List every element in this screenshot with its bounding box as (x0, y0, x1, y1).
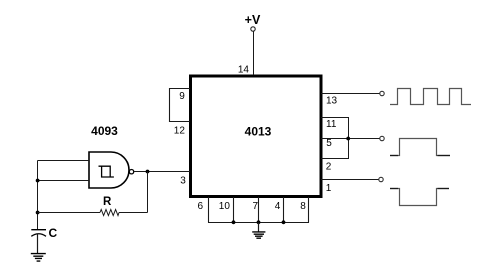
wire gate input bottom (38, 180, 90, 182)
svg-text:3: 3 (180, 175, 186, 186)
wire pin 5 (321, 138, 380, 140)
wire bottom bus (208, 222, 309, 224)
junction input node (36, 179, 40, 183)
svg-text:1: 1 (326, 183, 332, 194)
junction pin 4/bus (282, 220, 286, 224)
gate output bubble (129, 170, 133, 174)
svg-text:10: 10 (219, 201, 231, 212)
wire feedback horizontal right of R (119, 212, 148, 214)
wire bus to ground (258, 223, 260, 232)
svg-text:4093: 4093 (91, 124, 118, 138)
waveform Q1 dark tails (390, 155, 450, 157)
bracket pins 11-2 (321, 118, 349, 159)
pin 4 stub (283, 197, 285, 223)
svg-text:9: 9 (179, 91, 185, 102)
svg-text:4013: 4013 (245, 124, 272, 138)
junction pin 7/bus (257, 220, 261, 224)
wire feedback vertical (147, 172, 149, 213)
svg-text:R: R (103, 196, 112, 208)
svg-text:12: 12 (174, 126, 186, 137)
ground (below pin 7) (252, 232, 265, 238)
svg-text:2: 2 (326, 162, 332, 173)
capacitor C plate bottom (curved) (31, 234, 46, 237)
pin 6 stub (208, 197, 210, 223)
wire pin 13 (321, 93, 380, 95)
resistor R (100, 210, 119, 216)
svg-text:8: 8 (300, 201, 306, 212)
waveform output Q2 (square wave fast) (390, 89, 471, 105)
svg-text:6: 6 (198, 201, 204, 212)
wire left vertical input/C node (37, 161, 39, 231)
capacitor C plate top (31, 229, 46, 231)
pin 8 stub (308, 197, 310, 223)
junction pin 10/bus (232, 220, 236, 224)
svg-text:+V: +V (245, 13, 261, 27)
pin 7 stub (258, 197, 260, 223)
svg-text:4: 4 (275, 201, 281, 212)
waveform Q1-bar dark tails (390, 188, 449, 190)
svg-text:13: 13 (326, 96, 338, 107)
terminal +V (251, 27, 255, 31)
wire +V to pin 14 (253, 31, 255, 75)
terminal pin 5 (380, 136, 384, 140)
ground (below C) (31, 254, 46, 262)
junction C/R node (36, 211, 40, 215)
bracket pins 9-12 (170, 89, 191, 122)
svg-text:C: C (49, 226, 58, 240)
waveform output Q1 (slow pulse) (390, 139, 450, 156)
NAND gate U2 4093 body (89, 152, 129, 188)
wire feedback horizontal left of R (38, 212, 101, 214)
terminal pin 1 (379, 177, 383, 181)
svg-text:11: 11 (326, 119, 337, 130)
wire gate output to pin 3 (134, 171, 190, 173)
IC U1 4013 body (191, 76, 322, 197)
wire pin 1 (321, 179, 379, 181)
svg-text:5: 5 (326, 138, 332, 149)
svg-text:14: 14 (238, 65, 250, 76)
terminal pin 13 (380, 91, 384, 95)
junction pin5/bracket (346, 137, 350, 141)
wire C to ground (37, 234, 39, 253)
wire gate input top (38, 160, 90, 162)
svg-text:7: 7 (253, 201, 259, 212)
junction feedback node (146, 170, 150, 174)
schmitt trigger symbol (99, 166, 114, 177)
waveform output Q1-bar (inverted pulse) (390, 189, 449, 206)
pin 10 stub (233, 197, 235, 223)
